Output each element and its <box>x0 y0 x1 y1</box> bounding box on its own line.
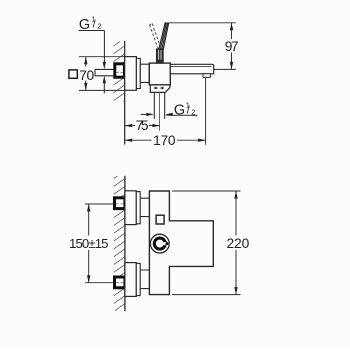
dimension 150±15: dimension line and arrows <box>88 204 90 236</box>
svg-text:2: 2 <box>97 21 101 30</box>
cold escutcheon inner plate <box>136 263 140 295</box>
lever arm <box>159 23 169 49</box>
union cylinder (side view) <box>140 64 149 82</box>
mixer body outline (top view) <box>149 191 213 295</box>
wall face line (side view) <box>124 41 126 145</box>
outlet centerline <box>159 92 161 130</box>
diverter knob (small square) <box>156 215 164 224</box>
dimension 97: extension lines <box>169 22 236 24</box>
dimension square-70: text <box>69 70 77 78</box>
handle base <box>157 49 164 63</box>
diverter symbol marks <box>155 87 164 90</box>
G1/2 leader arrow up at pipe bottom <box>103 76 106 84</box>
cold escutcheon plate <box>125 263 136 297</box>
shower outlet pipe <box>154 92 164 118</box>
G1/2 outlet arrows <box>141 113 147 115</box>
wall union nut (side view) <box>115 64 125 77</box>
hot union cylinder <box>140 198 149 216</box>
dimension square-70: dimension line and arrows <box>85 57 87 67</box>
G1/2 label (bottom outlet) <box>166 101 197 119</box>
wall face line (top view) <box>124 176 126 311</box>
svg-text:97: 97 <box>225 39 239 54</box>
hot escutcheon plate <box>125 191 136 225</box>
lever alternate position (dashed) <box>150 24 160 48</box>
svg-text:170: 170 <box>153 133 176 148</box>
G1/2 leader arrow down at pipe top <box>103 62 106 70</box>
dimension 75: line and arrows <box>125 125 135 127</box>
G1/2 label (top left) <box>79 15 105 63</box>
spout (side view) <box>170 64 213 74</box>
hot escutcheon inner plate <box>136 192 140 224</box>
escutcheon inner plate (side view) <box>136 58 140 88</box>
dimension square-70: extension lines <box>79 56 124 58</box>
dimension 150±15: extension lines <box>85 203 115 205</box>
aerator nub <box>203 74 211 78</box>
wall hatching (side view) <box>114 42 125 102</box>
nut centerline dash <box>116 72 123 74</box>
mixer body (side view) <box>149 63 170 85</box>
hot connection union nut <box>115 198 125 209</box>
svg-text:70: 70 <box>79 68 94 83</box>
dimension 97: dimension line and arrows <box>231 23 233 39</box>
extension line from aerator <box>205 78 207 145</box>
svg-text:150±15: 150±15 <box>69 236 109 251</box>
diverter housing wedge <box>150 85 170 93</box>
handle logo circle <box>150 234 169 253</box>
cold union cylinder <box>140 270 149 289</box>
cold connection union nut <box>115 277 125 288</box>
supply pipe in wall <box>95 69 114 75</box>
dimension 170: line and arrows <box>125 139 152 141</box>
spout top inner line <box>170 66 211 68</box>
svg-text:G: G <box>174 103 185 119</box>
svg-text:220: 220 <box>227 236 250 251</box>
svg-text:75: 75 <box>136 118 149 133</box>
wall hatching (top view) <box>114 176 125 311</box>
escutcheon plate (side view) <box>125 57 137 91</box>
dimension 220: dimension line and arrows <box>235 191 237 236</box>
dimension 220: extension lines <box>172 190 241 192</box>
